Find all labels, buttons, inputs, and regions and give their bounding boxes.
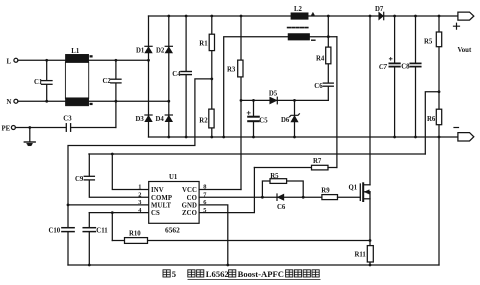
junction R2-bus bbox=[210, 136, 213, 139]
junction source-sense bbox=[369, 239, 372, 242]
svg-text:C3: C3 bbox=[63, 116, 72, 123]
junction R11-rail bbox=[369, 264, 372, 267]
svg-text:C6: C6 bbox=[277, 204, 286, 211]
wire: bridge right column bbox=[168, 16, 170, 137]
wire: R4 column from rail bbox=[327, 16, 329, 83]
junction C7-bus bbox=[393, 136, 396, 139]
junction divider midpoint bbox=[438, 90, 441, 93]
wire: PE line right segment to C2 column bbox=[71, 127, 116, 129]
svg-text:R7: R7 bbox=[313, 158, 322, 165]
junction bridge-bus bbox=[167, 136, 170, 139]
svg-text:INV: INV bbox=[151, 187, 164, 194]
junction PE-ground bbox=[28, 126, 31, 129]
junction combo right bbox=[302, 196, 305, 199]
inductor L2 aux winding bbox=[288, 34, 315, 41]
svg-text:L: L bbox=[7, 58, 12, 65]
wire: GND pin 6 lead and drop bbox=[199, 205, 228, 265]
wire: gate drive parallel combo frame bbox=[262, 181, 303, 197]
svg-text:ZCO: ZCO bbox=[182, 210, 197, 217]
wire: ZCD vertical from aux winding down to R7 bbox=[336, 37, 338, 168]
capacitor C11 bbox=[83, 213, 95, 265]
svg-text:CO: CO bbox=[187, 195, 197, 202]
resistor R6 bbox=[436, 109, 441, 125]
svg-text:C9: C9 bbox=[75, 176, 84, 183]
svg-text:6562: 6562 bbox=[165, 225, 180, 234]
wire: gate line through diode bbox=[262, 196, 322, 198]
svg-text:R5: R5 bbox=[424, 39, 433, 46]
svg-text:R9: R9 bbox=[321, 188, 330, 195]
capacitor C4 bbox=[181, 16, 191, 137]
svg-text:D1: D1 bbox=[136, 47, 145, 54]
output terminal plus bbox=[454, 12, 474, 29]
svg-text:R10: R10 bbox=[129, 231, 141, 238]
junction N-bridge bbox=[167, 100, 170, 103]
wire: top rail bbox=[149, 15, 458, 17]
svg-text:R6: R6 bbox=[427, 116, 436, 123]
diode C6 gate speed-up bbox=[277, 194, 284, 200]
svg-text:D7: D7 bbox=[375, 6, 384, 13]
capacitor C6 bbox=[323, 83, 333, 86]
terminal PE bbox=[11, 126, 15, 130]
junction C1-L bbox=[45, 59, 48, 62]
wire: INV drop to pin 1 bbox=[112, 154, 148, 190]
diode D1 bbox=[145, 46, 152, 53]
terminal L bbox=[14, 58, 18, 62]
capacitor C10 bbox=[62, 205, 74, 265]
svg-text:D5: D5 bbox=[269, 91, 278, 98]
junction CS-R10 bbox=[111, 211, 114, 214]
resistor R2 bbox=[209, 109, 214, 128]
svg-text:GND: GND bbox=[182, 203, 197, 210]
terminal N bbox=[14, 99, 18, 103]
junction C7-rail bbox=[393, 15, 396, 18]
wire: R1-R2 column bbox=[211, 16, 213, 137]
resistor R7 bbox=[312, 165, 329, 170]
wire: R7 right lead to ZCD vertical bbox=[328, 167, 337, 169]
resistor R11 bbox=[367, 241, 373, 266]
capacitor C5 electrolytic bbox=[247, 100, 259, 137]
svg-text:U1: U1 bbox=[169, 174, 178, 181]
wire: PE line left segment bbox=[15, 127, 66, 129]
svg-text:C7: C7 bbox=[379, 64, 388, 71]
inductor L1 common-mode choke bbox=[65, 54, 92, 106]
svg-text:R11: R11 bbox=[355, 252, 367, 259]
svg-text:R3: R3 bbox=[227, 66, 236, 73]
resistor R9 bbox=[322, 195, 338, 200]
wire: GD pin 7 lead bbox=[199, 196, 262, 198]
resistor R3 bbox=[238, 60, 243, 77]
junction C11-rail bbox=[88, 264, 91, 267]
wire: R9 to gate bbox=[338, 196, 361, 198]
resistor R5 gate bbox=[270, 179, 287, 184]
svg-text:C4: C4 bbox=[172, 71, 181, 78]
wire: Q1 source column bbox=[369, 192, 371, 241]
junction R6-bus bbox=[438, 136, 441, 139]
svg-text:C2: C2 bbox=[103, 78, 112, 85]
wire: CS line to pin 4 bbox=[89, 212, 148, 214]
wire: ZCD line to R7 bbox=[254, 167, 311, 169]
resistor R1 bbox=[209, 34, 214, 50]
capacitor C7 electrolytic bbox=[389, 16, 400, 137]
op-amp U1 controller box bbox=[149, 182, 199, 224]
capacitor C9 bbox=[84, 154, 149, 197]
resistor R10 bbox=[125, 238, 148, 244]
wire: R4 column below C6 bbox=[327, 87, 329, 101]
svg-text:COMP: COMP bbox=[151, 195, 172, 202]
wire: D5 VCC line bbox=[241, 99, 328, 101]
svg-text:C1: C1 bbox=[34, 79, 43, 86]
svg-text:Vout: Vout bbox=[458, 47, 472, 54]
svg-text:C11: C11 bbox=[96, 228, 108, 235]
junction tap bbox=[210, 78, 213, 81]
diode D3 bbox=[145, 115, 152, 122]
svg-text:R1: R1 bbox=[199, 40, 208, 47]
svg-text:R5: R5 bbox=[270, 173, 279, 180]
inductor L2 boost inductor top winding bbox=[291, 13, 315, 20]
wire: bridge left column bbox=[148, 16, 150, 137]
wire: R3 VCC column bbox=[240, 16, 242, 190]
svg-text:R4: R4 bbox=[316, 56, 325, 63]
svg-text:PE: PE bbox=[2, 126, 11, 133]
svg-text:L2: L2 bbox=[294, 6, 303, 13]
junction C1-N bbox=[45, 100, 48, 103]
capacitor C1 bbox=[42, 60, 53, 101]
diode D2 bbox=[165, 46, 172, 53]
junction D6-bus bbox=[293, 136, 296, 139]
svg-text:D6: D6 bbox=[281, 117, 290, 124]
junction C2-N bbox=[115, 100, 118, 103]
svg-text:VCC: VCC bbox=[182, 187, 197, 194]
junction INV drop bbox=[111, 153, 114, 156]
junction C8-rail bbox=[414, 15, 417, 18]
junction C4-rail bbox=[185, 15, 188, 18]
junction C2-L bbox=[115, 59, 118, 62]
svg-text:2: 2 bbox=[138, 191, 141, 198]
zener diode D6 bbox=[290, 100, 300, 137]
junction GND-rail bbox=[226, 264, 229, 267]
svg-text:C6: C6 bbox=[314, 83, 323, 90]
svg-text:C8: C8 bbox=[401, 63, 410, 70]
junction R3-rail bbox=[240, 15, 243, 18]
diode D7 bbox=[379, 12, 384, 19]
wire: divider tap to MULT route bbox=[68, 79, 212, 205]
junction C5-bus bbox=[252, 136, 255, 139]
wire: ZCO pin 5 lead and rise bbox=[199, 168, 254, 213]
junction MULT-C10 bbox=[67, 204, 70, 207]
junction C8-bus bbox=[414, 136, 417, 139]
svg-text:L6562: L6562 bbox=[206, 269, 229, 279]
svg-text:3: 3 bbox=[138, 199, 141, 206]
wire: INV feedback line bbox=[89, 153, 425, 155]
junction C5-D5line bbox=[252, 99, 255, 102]
junction combo left bbox=[261, 196, 264, 199]
svg-text:D3: D3 bbox=[136, 116, 145, 123]
svg-text:1: 1 bbox=[138, 184, 141, 191]
junction drain-rail bbox=[369, 15, 372, 18]
svg-text:Q1: Q1 bbox=[349, 185, 358, 192]
inductor L2 core dashed line bbox=[288, 27, 309, 29]
ground bbox=[24, 128, 35, 146]
svg-text:L1: L1 bbox=[71, 48, 80, 55]
svg-text:C10: C10 bbox=[49, 228, 61, 235]
junction D5line-R3col bbox=[240, 99, 243, 102]
wire: R5 R6 output divider column bbox=[438, 16, 440, 265]
svg-text:5: 5 bbox=[172, 269, 176, 279]
svg-text:MULT: MULT bbox=[151, 203, 172, 210]
wire: L line from terminal to bridge bbox=[18, 59, 149, 61]
wire: bottom ground rail bbox=[68, 264, 439, 266]
capacitor C2 bbox=[111, 60, 121, 127]
diode D4 bbox=[165, 115, 172, 122]
junction R1-rail bbox=[210, 15, 213, 18]
wire: aux winding right lead bbox=[310, 36, 337, 38]
junction bridge columns to rail bbox=[167, 15, 170, 18]
resistor R5 bbox=[436, 32, 441, 47]
junction R4-rail bbox=[327, 15, 330, 18]
svg-text:D2: D2 bbox=[156, 47, 165, 54]
junction aux-gnd-bus bbox=[222, 136, 225, 139]
wire: current sense line bbox=[112, 240, 370, 242]
wire: aux winding left lead and ground column bbox=[224, 37, 288, 137]
wire: CS to R10 drop bbox=[111, 213, 113, 241]
resistor R4 bbox=[326, 47, 331, 64]
wire: VCC pin 8 lead bbox=[199, 189, 241, 191]
junction D6-D5line bbox=[293, 99, 296, 102]
wire: divider midpoint feedback drop bbox=[425, 92, 439, 154]
svg-text:C5: C5 bbox=[259, 118, 268, 125]
junction C4-bus bbox=[185, 136, 188, 139]
transistor Q1 MOSFET bbox=[360, 183, 370, 201]
junction aux-R4 bbox=[327, 35, 330, 38]
output terminal minus bbox=[454, 128, 474, 142]
svg-text:Boost-APFC: Boost-APFC bbox=[238, 269, 284, 279]
junction R5-rail bbox=[438, 15, 441, 18]
diode D5 bbox=[270, 97, 278, 104]
wire: MULT line to pin 3 bbox=[68, 204, 149, 206]
wire: Q1 drain column bbox=[369, 16, 371, 185]
capacitor C3 bbox=[66, 124, 70, 132]
wire: main negative bus bbox=[149, 136, 458, 138]
svg-text:D4: D4 bbox=[156, 116, 165, 123]
svg-text:R2: R2 bbox=[199, 118, 208, 125]
junction L-bridge bbox=[147, 59, 150, 62]
caption figure 5 bbox=[163, 269, 321, 280]
svg-text:N: N bbox=[7, 99, 12, 106]
capacitor C8 bbox=[410, 16, 420, 137]
svg-text:CS: CS bbox=[151, 210, 160, 217]
wire: N line from terminal to bridge bbox=[18, 100, 169, 102]
